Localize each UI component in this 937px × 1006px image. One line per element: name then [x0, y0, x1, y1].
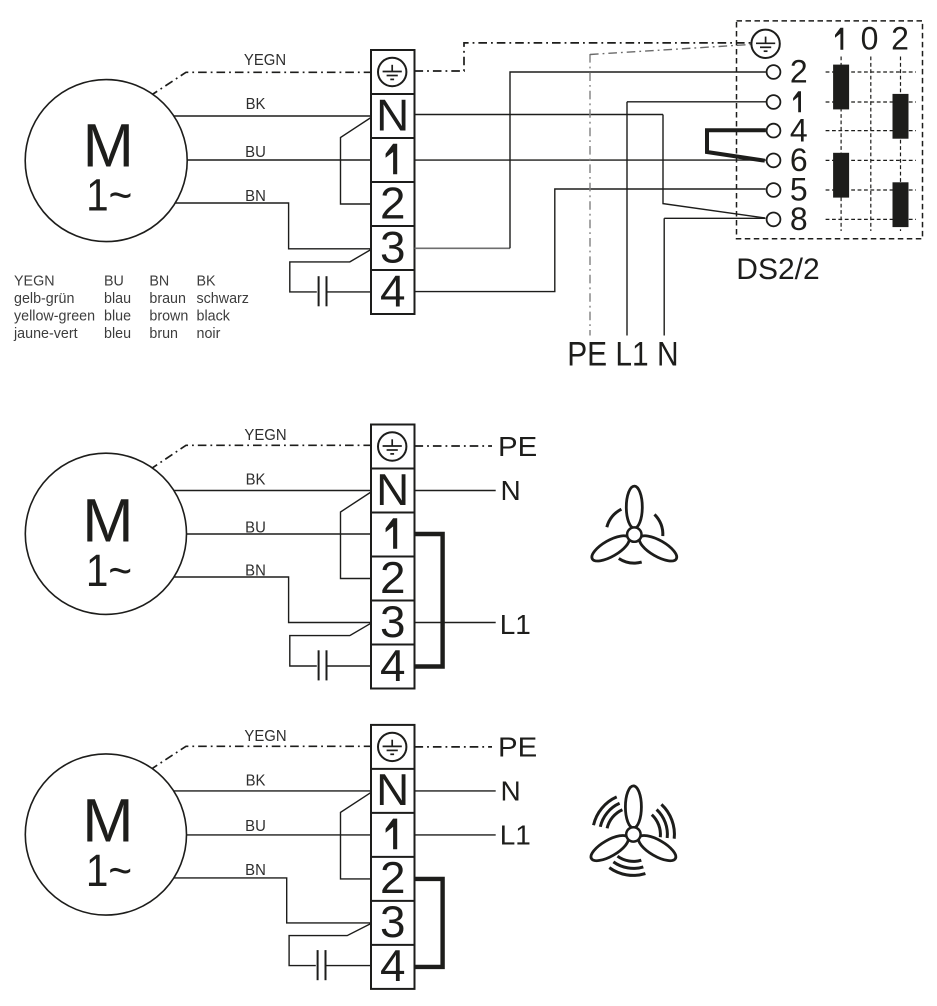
svg-text:noir: noir: [197, 326, 221, 342]
svg-text:BN: BN: [245, 187, 266, 205]
svg-text:braun: braun: [149, 291, 186, 307]
svg-text:2: 2: [790, 54, 808, 90]
svg-text:YEGN: YEGN: [244, 51, 286, 69]
svg-text:N: N: [501, 475, 521, 506]
svg-text:N: N: [376, 464, 409, 514]
svg-text:0: 0: [861, 21, 879, 57]
svg-text:BK: BK: [246, 772, 267, 790]
svg-text:4: 4: [380, 640, 405, 690]
svg-text:BN: BN: [149, 273, 169, 289]
svg-text:brun: brun: [149, 326, 178, 342]
svg-text:BU: BU: [245, 144, 266, 162]
svg-text:4: 4: [380, 941, 405, 991]
svg-text:BK: BK: [246, 96, 267, 114]
svg-text:4: 4: [380, 266, 405, 316]
svg-text:bleu: bleu: [104, 326, 131, 342]
svg-text:2: 2: [380, 853, 405, 903]
svg-text:2: 2: [380, 178, 405, 228]
svg-text:8: 8: [790, 201, 808, 237]
svg-text:L1: L1: [500, 609, 531, 640]
svg-text:N: N: [501, 775, 521, 806]
svg-text:PE: PE: [498, 432, 537, 463]
svg-text:blau: blau: [104, 291, 131, 307]
svg-text:schwarz: schwarz: [197, 291, 249, 307]
svg-text:YEGN: YEGN: [244, 427, 286, 445]
svg-text:brown: brown: [149, 308, 188, 324]
svg-text:N: N: [376, 90, 409, 140]
svg-text:black: black: [197, 308, 231, 324]
svg-text:PE: PE: [498, 732, 537, 763]
svg-text:BU: BU: [245, 519, 266, 537]
svg-text:yellow-green: yellow-green: [14, 308, 95, 324]
svg-text:1~: 1~: [86, 846, 132, 896]
svg-text:3: 3: [380, 596, 405, 646]
svg-text:jaune-vert: jaune-vert: [13, 326, 78, 342]
svg-text:3: 3: [380, 222, 405, 272]
svg-text:YEGN: YEGN: [244, 728, 286, 746]
svg-text:N: N: [376, 765, 409, 815]
svg-text:gelb-grün: gelb-grün: [14, 291, 74, 307]
svg-text:3: 3: [380, 897, 405, 947]
svg-text:1~: 1~: [86, 546, 132, 596]
svg-text:YEGN: YEGN: [14, 273, 55, 289]
svg-text:BN: BN: [245, 861, 266, 879]
svg-text:BU: BU: [104, 273, 124, 289]
svg-text:BU: BU: [245, 817, 266, 835]
svg-text:2: 2: [380, 552, 405, 602]
svg-text:L1: L1: [500, 819, 531, 850]
svg-text:1~: 1~: [86, 171, 132, 221]
svg-text:blue: blue: [104, 308, 131, 324]
svg-text:DS2/2: DS2/2: [736, 253, 819, 286]
svg-text:BN: BN: [245, 562, 266, 580]
svg-text:2: 2: [891, 21, 909, 57]
svg-text:BK: BK: [246, 471, 267, 489]
svg-text:PE L1 N: PE L1 N: [567, 335, 678, 373]
svg-text:BK: BK: [197, 273, 217, 289]
